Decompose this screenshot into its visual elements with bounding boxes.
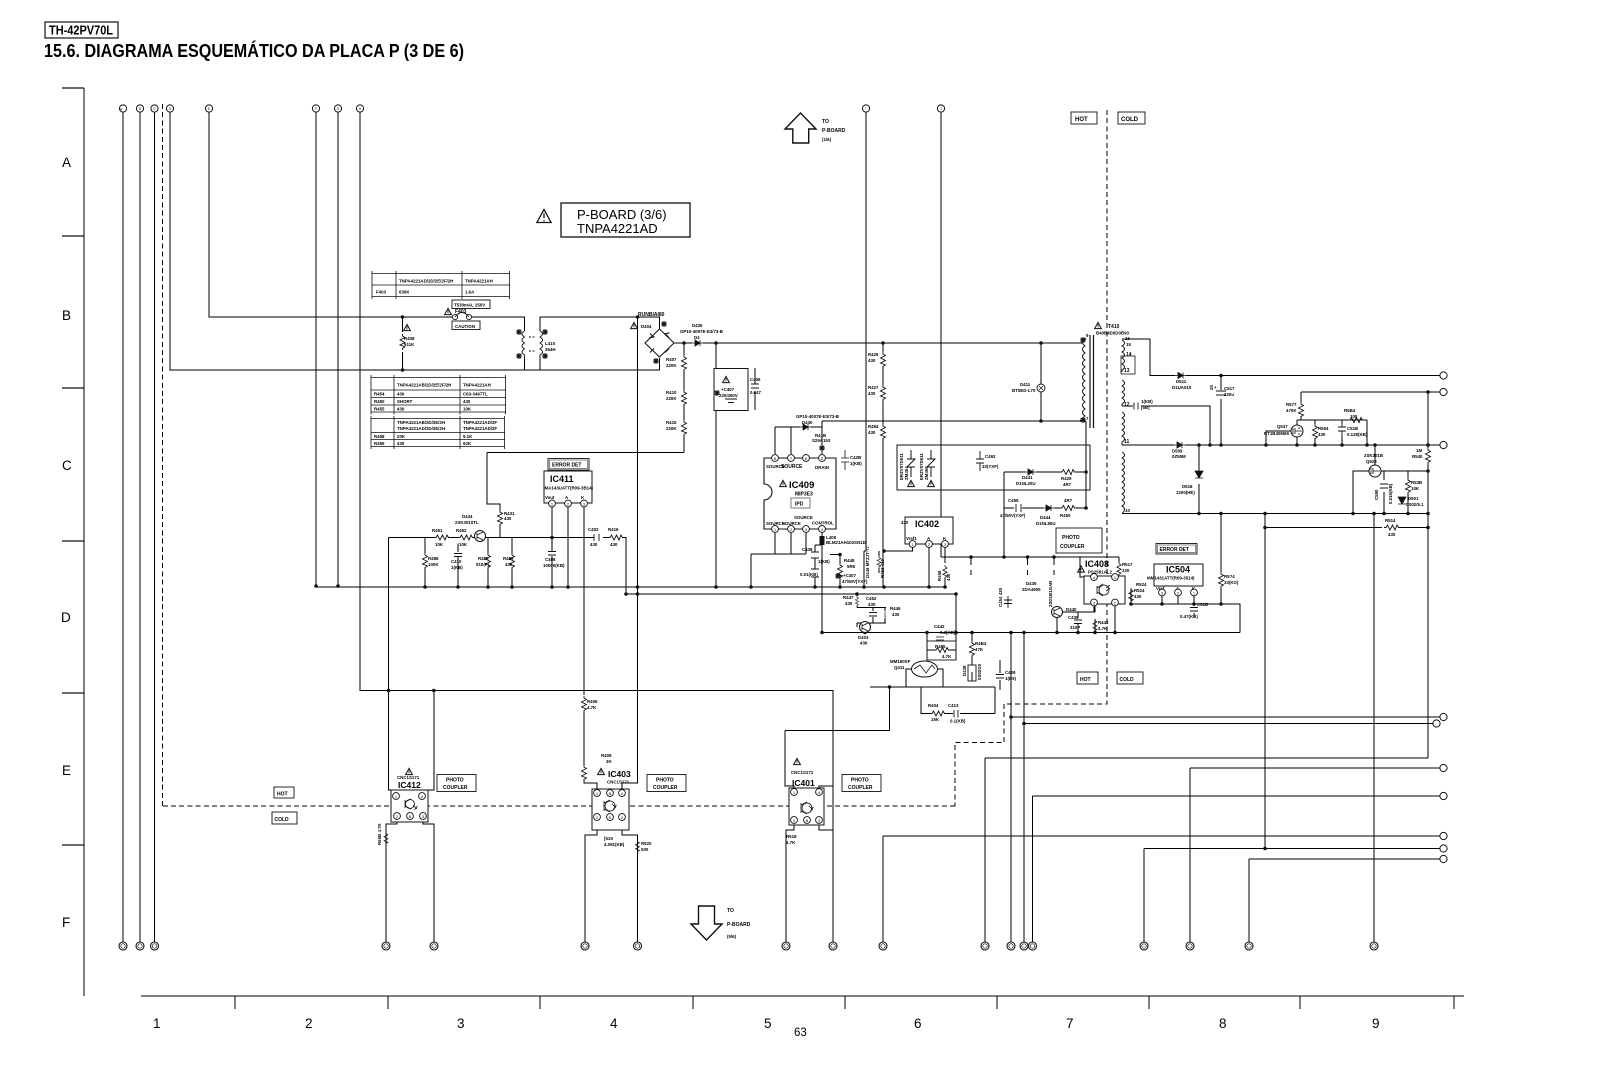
svg-text:1(B5): 1(B5): [1005, 676, 1017, 681]
R442: [1093, 619, 1097, 632]
R431: [498, 510, 503, 526]
wire drop G: [337, 112, 339, 586]
svg-text:E: E: [609, 815, 612, 820]
svg-text:63: 63: [794, 1027, 807, 1039]
wire R458 pin3: [944, 548, 946, 587]
svg-text:MA143UATT(R09-3B14): MA143UATT(R09-3B14): [545, 486, 594, 491]
svg-text:10K: 10K: [1411, 486, 1420, 491]
svg-text:430: 430: [901, 520, 909, 525]
svg-text:DRAIN: DRAIN: [815, 465, 829, 470]
MOSFET Q537: [1291, 425, 1303, 437]
wire sec rail 375: [1122, 339, 1440, 376]
wire riser x1376: [1373, 514, 1375, 943]
diode D511: [1175, 373, 1186, 379]
svg-text:TNPA4221AD/2D/2E/2H: TNPA4221AD/2D/2E/2H: [397, 426, 445, 431]
svg-text:1200(HE): 1200(HE): [1176, 490, 1195, 495]
svg-text:10K: 10K: [459, 542, 468, 547]
svg-text:R494: R494: [868, 424, 879, 429]
wire D430 labelled diode feed: [805, 454, 807, 458]
svg-text:TH-42PV70L: TH-42PV70L: [49, 24, 113, 38]
svg-text:500: 500: [641, 847, 649, 852]
svg-text:62K: 62K: [463, 441, 472, 446]
wire C439 branch: [815, 545, 822, 587]
wire x1428 column: [1427, 392, 1429, 758]
svg-text:IC401: IC401: [792, 778, 815, 788]
svg-text:T530mAL 250V: T530mAL 250V: [454, 303, 485, 308]
wire x883 R426 chain: [882, 343, 884, 586]
wire snubber2: [1004, 507, 1086, 509]
svg-text:4R7: 4R7: [1064, 498, 1073, 503]
svg-text:R5B4: R5B4: [1344, 408, 1356, 413]
svg-text:R406: R406: [587, 699, 598, 704]
R485 boxed: [927, 641, 956, 660]
wire R514 x1221: [1220, 514, 1222, 605]
wire bus 632: [822, 632, 1240, 634]
svg-text:C455: C455: [1008, 498, 1019, 503]
bottom axis: [141, 995, 1464, 997]
junction dots: [401, 315, 405, 319]
wire x637 long drop: [622, 317, 638, 789]
svg-text:354H: 354H: [545, 347, 556, 352]
svg-text:D4: D4: [694, 335, 700, 340]
wire IC408 pin2 drop: [1114, 606, 1116, 633]
svg-text:R409: R409: [601, 753, 612, 758]
svg-text:0.01(KB): 0.01(KB): [800, 572, 818, 577]
R407 R410 R415 chain: [682, 355, 687, 371]
svg-text:310P: 310P: [1070, 625, 1080, 630]
svg-text:A: A: [62, 155, 71, 170]
svg-text:Q537: Q537: [1277, 424, 1288, 429]
wire drop I: [864, 112, 866, 551]
wire riser x1249: [1249, 859, 1440, 942]
fuse table top: [372, 271, 510, 299]
svg-text:B40B4D0D0B93: B40B4D0D0B93: [1096, 331, 1130, 336]
svg-text:6: 6: [914, 1016, 922, 1031]
wire riser x1189: [1190, 768, 1440, 942]
svg-text:4.7K: 4.7K: [942, 654, 952, 659]
svg-text:14: 14: [1126, 352, 1132, 358]
R404 C413: [930, 711, 946, 716]
svg-text:C410: C410: [451, 559, 462, 564]
D4 series diode: [692, 340, 703, 346]
svg-text:R517: R517: [1122, 562, 1133, 567]
wire choke out to bridge: [540, 317, 660, 331]
wire riser x984: [985, 758, 1428, 942]
resistor table mid: [371, 375, 506, 415]
svg-text:4: 4: [610, 1016, 618, 1031]
wire R485 box area: [927, 633, 956, 661]
svg-text:1: 1: [153, 1016, 161, 1031]
snubber1 D441 R429: [1025, 469, 1036, 475]
svg-text:Q411: Q411: [894, 665, 905, 670]
resistor R5x4: [1219, 572, 1224, 588]
svg-text:2SD1B1GAR: 2SD1B1GAR: [1048, 580, 1053, 607]
wire pin12 snub: [1122, 406, 1210, 445]
svg-text:20K: 20K: [397, 434, 406, 439]
svg-text:D: D: [61, 610, 71, 625]
wire RC box cluster: [857, 594, 886, 633]
svg-text:K: K: [581, 495, 585, 500]
svg-text:CAUTION: CAUTION: [455, 324, 475, 329]
wire IC411 pin stubs: [552, 507, 597, 789]
svg-text:PHOTO: PHOTO: [1062, 535, 1080, 541]
wire drop H rail: [360, 112, 833, 942]
svg-text:+C407: +C407: [843, 573, 857, 578]
D438: [968, 665, 976, 681]
svg-text:R455: R455: [374, 407, 385, 412]
svg-text:R459: R459: [374, 441, 385, 446]
svg-text:[519: [519: [604, 836, 613, 841]
terminal H: [356, 105, 363, 112]
T410 core: [1090, 335, 1094, 428]
svg-text:220K: 220K: [666, 426, 677, 431]
C410: [454, 554, 462, 557]
svg-text:220K: 220K: [666, 396, 677, 401]
svg-text:R65B 4.7K: R65B 4.7K: [377, 822, 382, 845]
svg-text:IC412: IC412: [398, 780, 421, 790]
svg-text:430: 430: [1134, 594, 1142, 599]
svg-text:TNPA4221AH: TNPA4221AH: [463, 383, 491, 388]
svg-text:MM1431ATT(R09-3514): MM1431ATT(R09-3514): [1147, 576, 1195, 581]
terminal F: [312, 105, 319, 112]
svg-text:R448: R448: [844, 558, 855, 563]
svg-text:TNPA4221AD/2D/2E/2F/2H: TNPA4221AD/2D/2E/2F/2H: [399, 279, 453, 284]
zener ZM404: [907, 450, 915, 477]
svg-text:R416: R416: [608, 527, 619, 532]
svg-text:D441: D441: [1022, 475, 1033, 480]
svg-text:PHOTO: PHOTO: [656, 778, 674, 784]
MOSFET Q523: [1369, 465, 1381, 477]
svg-text:C435: C435: [1068, 615, 1079, 620]
resistor R584: [1348, 418, 1364, 423]
svg-text:HOT: HOT: [277, 792, 288, 798]
svg-text:C452: C452: [866, 596, 877, 601]
svg-text:E: E: [208, 107, 210, 111]
wire R404 C413 box: [921, 687, 995, 714]
svg-text:R450: R450: [1060, 513, 1071, 518]
wire R453 branch: [878, 551, 880, 573]
svg-text:220K: 220K: [666, 363, 677, 368]
left frame line: [83, 88, 85, 996]
svg-text:(1/6): (1/6): [822, 137, 832, 142]
svg-text:D411: D411: [1020, 382, 1031, 387]
svg-text:9.1K: 9.1K: [463, 434, 473, 439]
svg-text:C439: C439: [802, 547, 813, 552]
svg-text:D403: D403: [858, 635, 869, 640]
svg-text:TNPA4221AB/2D/2E/2F/2H: TNPA4221AB/2D/2E/2F/2H: [397, 383, 451, 388]
wire C435 R442 stubs: [1078, 604, 1095, 633]
wire IC412 legs: [386, 819, 434, 942]
svg-text:R540: R540: [1412, 454, 1423, 459]
svg-text:COUPLER: COUPLER: [848, 785, 873, 791]
svg-text:RUNBIAI80: RUNBIAI80: [638, 312, 665, 318]
T410 pin marks: [1080, 337, 1086, 343]
svg-text:R427: R427: [868, 385, 879, 390]
R489: [510, 553, 515, 569]
svg-text:C402: C402: [588, 527, 599, 532]
svg-text:F: F: [62, 915, 70, 930]
svg-text:D430: D430: [802, 420, 813, 425]
zener ZM406: [927, 450, 935, 477]
svg-text:430: 430: [397, 407, 405, 412]
svg-text:R447: R447: [843, 595, 854, 600]
svg-text:47/50V[YXF]: 47/50V[YXF]: [842, 579, 868, 584]
wire R517 drop: [1115, 557, 1119, 577]
svg-text:GP10-4007E-E3/73-B: GP10-4007E-E3/73-B: [796, 414, 839, 419]
svg-text:10: 10: [1125, 508, 1130, 513]
wire R408 branch: [402, 317, 404, 370]
op-amp U-IC409 body: [764, 458, 836, 529]
wire R484: [971, 633, 973, 689]
R448: [838, 563, 843, 579]
svg-text:IPD: IPD: [795, 502, 804, 508]
svg-text:470K: 470K: [1286, 408, 1297, 413]
svg-text:COLD: COLD: [275, 817, 290, 823]
svg-text:C429: C429: [1005, 670, 1016, 675]
svg-text:D509: D509: [1172, 449, 1183, 454]
svg-text:C454 430: C454 430: [998, 587, 1003, 607]
svg-text:D446 MTZJT-77: D446 MTZJT-77: [865, 545, 870, 578]
capacitor C518: [1338, 420, 1346, 438]
svg-text:L410: L410: [545, 341, 556, 346]
fuse F403: [452, 314, 457, 319]
wire rail 514: [1122, 513, 1428, 515]
wire bus 557: [941, 556, 1119, 558]
svg-text:430: 430: [1388, 532, 1396, 537]
wire C407 leg: [715, 343, 717, 587]
svg-text:15.6. DIAGRAMA ESQUEMÁTICO DA: 15.6. DIAGRAMA ESQUEMÁTICO DA PLACA P (3…: [44, 40, 464, 61]
R488: [423, 553, 428, 569]
wire R524: [1130, 588, 1132, 604]
bottom terminals: [119, 942, 127, 950]
C428: [841, 450, 849, 470]
terminal I: [862, 105, 869, 112]
svg-text:0.3[KB]: 0.3[KB]: [940, 630, 956, 635]
svg-text:F403: F403: [376, 290, 387, 295]
wire IC409 top pin stubs: [775, 427, 822, 454]
svg-text:D511: D511: [1176, 379, 1187, 384]
svg-text:R426: R426: [868, 352, 879, 357]
svg-text:Vout: Vout: [545, 495, 555, 500]
svg-text:0.128(KB): 0.128(KB): [1347, 432, 1368, 437]
svg-text:COUPLER: COUPLER: [1060, 544, 1085, 550]
wire rail 527: [1265, 527, 1428, 529]
svg-text:2DA4905: 2DA4905: [1022, 587, 1041, 592]
svg-text:430: 430: [868, 430, 876, 435]
svg-text:HOT: HOT: [1075, 117, 1088, 123]
svg-text:Q523: Q523: [1366, 459, 1377, 464]
svg-text:D1NL20U: D1NL20U: [1016, 481, 1036, 486]
svg-text:COLD: COLD: [1120, 677, 1135, 683]
svg-text:1(KB): 1(KB): [818, 559, 830, 564]
svg-text:3: 3: [457, 1016, 465, 1031]
svg-text:R489: R489: [503, 556, 514, 561]
wire C517: [1220, 376, 1222, 446]
svg-text:S29A153: S29A153: [812, 438, 831, 443]
C447: [811, 569, 819, 577]
svg-text:D434: D434: [462, 514, 473, 519]
svg-text:C590: C590: [1374, 489, 1379, 500]
svg-text:7: 7: [1066, 1016, 1074, 1031]
svg-text:GP10-4097E-E3/73-B: GP10-4097E-E3/73-B: [680, 329, 723, 334]
wire riser x1011: [1011, 633, 1440, 943]
svg-text:R4B4: R4B4: [975, 641, 987, 646]
svg-text:CONTROL: CONTROL: [812, 521, 834, 526]
svg-text:430: 430: [860, 641, 868, 646]
choke L410: [522, 331, 543, 357]
svg-text:MIP3E3: MIP3E3: [795, 492, 813, 498]
wire stub x1027: [1027, 557, 1029, 575]
C452 cap: [869, 613, 877, 617]
svg-text:R577: R577: [1286, 402, 1297, 407]
svg-text:R485: R485: [478, 556, 489, 561]
svg-text:430: 430: [946, 573, 951, 581]
svg-text:[5B]: [5B]: [1141, 405, 1150, 410]
C406 snubber: [751, 384, 759, 388]
svg-text:C413: C413: [948, 703, 959, 708]
wire drop F: [315, 112, 317, 586]
wire drop J: [940, 112, 942, 557]
svg-text:B: B: [62, 308, 71, 323]
zener D501: [1398, 497, 1406, 504]
svg-text:F: F: [315, 107, 317, 111]
svg-text:I: I: [866, 107, 867, 111]
wire snubber1: [1004, 421, 1086, 557]
wire drop E to AC line: [209, 112, 452, 317]
terminal C: [151, 105, 158, 112]
svg-text:BLM21AH102SN1D: BLM21AH102SN1D: [826, 540, 866, 545]
wire error-det feed: [487, 453, 684, 538]
wire rail2: [626, 594, 956, 633]
svg-text:TNPA4221AH: TNPA4221AH: [465, 279, 493, 284]
svg-text:PHOTO: PHOTO: [446, 778, 464, 784]
svg-text:R518: R518: [786, 834, 797, 839]
svg-text:ZM406: ZM406: [924, 466, 929, 480]
svg-text:TO: TO: [822, 119, 829, 125]
svg-text:0.015(KB): 0.015(KB): [1388, 483, 1393, 504]
wire IC408 pin3: [1057, 606, 1094, 633]
svg-text:SHORT: SHORT: [397, 399, 413, 404]
svg-text:R450: R450: [374, 399, 385, 404]
R494: [881, 424, 886, 440]
svg-text:R458: R458: [937, 570, 942, 581]
svg-text:D435: D435: [1026, 581, 1037, 586]
svg-text:430: 430: [505, 562, 513, 567]
svg-text:D440: D440: [1066, 607, 1077, 612]
svg-text:R5?4: R5?4: [1224, 574, 1235, 579]
wire AC line fuse to choke: [472, 317, 525, 331]
wire IC401 legs: [786, 786, 833, 942]
svg-text:5R6: 5R6: [847, 564, 856, 569]
L408 bead: [820, 536, 825, 545]
R453 rotated: [877, 556, 881, 568]
svg-text:C442: C442: [934, 624, 945, 629]
svg-text:4.7K: 4.7K: [786, 840, 796, 845]
svg-text:430: 430: [397, 392, 405, 397]
R458 rotated: [943, 565, 947, 579]
svg-text:0Z55M: 0Z55M: [1172, 454, 1186, 459]
resistor R538: [1406, 478, 1411, 494]
svg-text:4.091(KB): 4.091(KB): [604, 842, 625, 847]
wire IC401 link: [785, 687, 890, 789]
resistor table low: [371, 416, 505, 449]
svg-text:430: 430: [868, 391, 876, 396]
svg-text:R53B: R53B: [1411, 480, 1422, 485]
svg-text:D1NL80U: D1NL80U: [1036, 521, 1056, 526]
C492: [976, 451, 984, 471]
svg-text:IC403: IC403: [608, 769, 631, 779]
R517: [1117, 562, 1121, 576]
HOT COLD boxes top: [1071, 112, 1097, 124]
svg-text:CNC1S171: CNC1S171: [607, 780, 630, 785]
resistor R577: [1299, 402, 1304, 418]
wire Q523 cluster: [1353, 445, 1428, 514]
wire D446 branch: [863, 551, 865, 586]
R446 in box: [884, 611, 886, 618]
arrow to P-BOARD 1/6: [785, 113, 816, 143]
terminal B: [136, 105, 143, 112]
wire IC402 pin drops: [884, 548, 929, 587]
R447: [855, 596, 858, 606]
D411 snubber diode: [1037, 384, 1045, 392]
transistor D440: [1052, 607, 1063, 618]
svg-text:0.047: 0.047: [750, 390, 762, 395]
svg-text:IC504: IC504: [1166, 565, 1190, 575]
wire IC409 control drop: [821, 533, 823, 633]
svg-text:430: 430: [590, 542, 598, 547]
svg-text:B: B: [609, 791, 612, 796]
wire riser x884: [883, 836, 1440, 942]
wire drop C: [154, 112, 156, 942]
svg-text:HOT: HOT: [1080, 677, 1091, 683]
svg-text:5: 5: [764, 1016, 772, 1031]
right terminals: [1440, 372, 1447, 379]
svg-text:100K: 100K: [428, 562, 439, 567]
terminal J: [937, 105, 944, 112]
svg-text:8: 8: [1219, 1016, 1227, 1031]
svg-text:P-BOARD (3/6): P-BOARD (3/6): [577, 207, 667, 222]
svg-text:B: B: [409, 814, 412, 819]
wire C429: [999, 660, 1001, 690]
svg-text:1.6A: 1.6A: [465, 290, 475, 295]
svg-text:PHOTO: PHOTO: [851, 778, 869, 784]
R427: [881, 385, 886, 401]
transistor Q403: [860, 622, 871, 633]
R406: [582, 696, 587, 712]
C408: [548, 552, 556, 556]
bridge rectifier D404: [645, 329, 674, 357]
svg-text:D444: D444: [1040, 515, 1051, 520]
svg-text:9: 9: [1086, 333, 1089, 338]
C437: [835, 573, 841, 579]
svg-text:15: 15: [1126, 342, 1131, 347]
svg-text:R404: R404: [928, 703, 939, 708]
wire R407 chain: [683, 343, 685, 453]
svg-text:E: E: [62, 763, 71, 778]
R484: [970, 641, 975, 657]
svg-text:SOURCE: SOURCE: [781, 464, 803, 470]
svg-text:R524: R524: [1134, 588, 1145, 593]
wire D411 branch: [1040, 343, 1042, 421]
svg-text:9: 9: [1372, 1016, 1380, 1031]
svg-text:430: 430: [868, 602, 876, 607]
svg-text:IC411: IC411: [550, 474, 574, 484]
svg-text:R452: R452: [456, 528, 467, 533]
T410 primary winding: [1082, 339, 1085, 421]
wire drop D to AC neutral: [170, 112, 660, 370]
svg-text:ERROR DET: ERROR DET: [552, 463, 581, 469]
svg-text:COLD: COLD: [1121, 117, 1139, 123]
